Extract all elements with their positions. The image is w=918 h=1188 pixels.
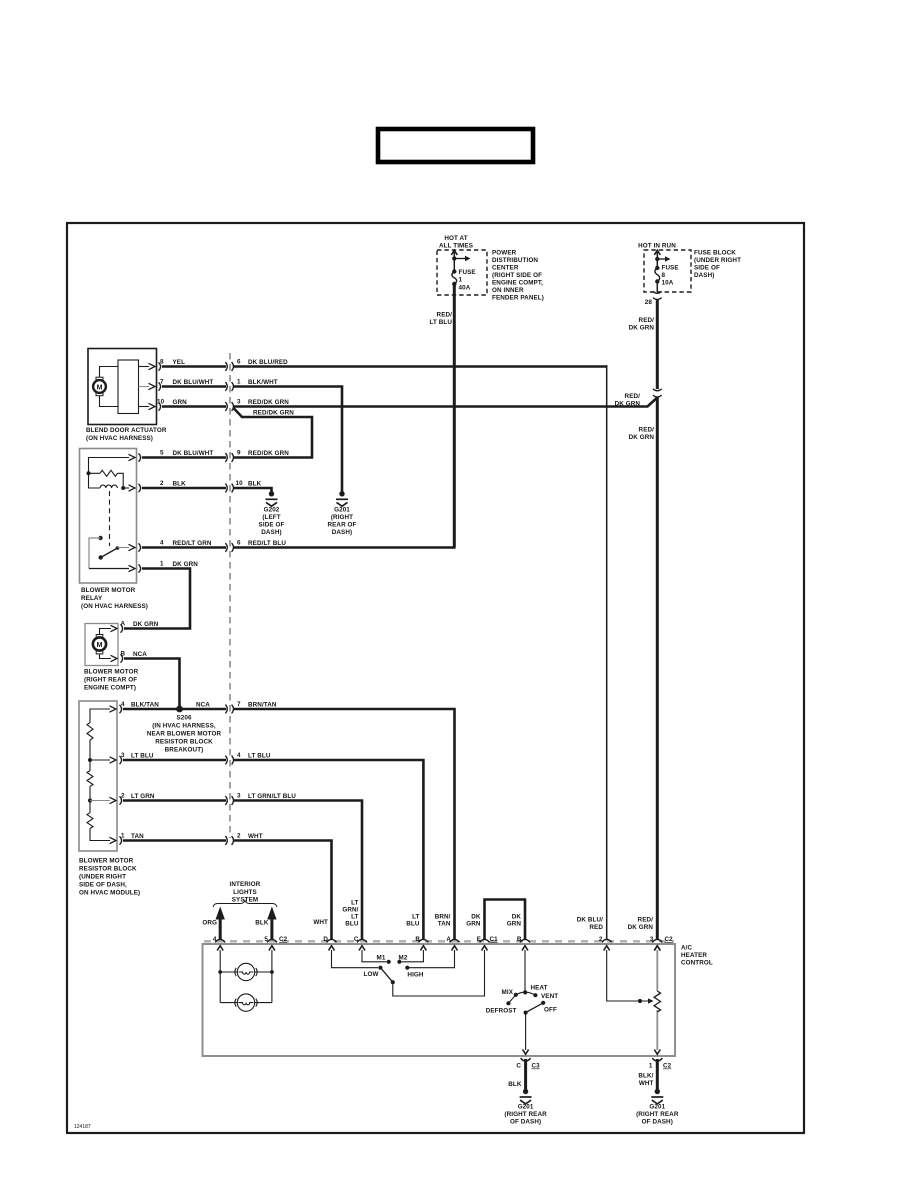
cap pin B: [418, 939, 428, 942]
svg-text:DASH): DASH): [332, 529, 352, 536]
wire RED/LT GRN pin4 to connector: [142, 546, 226, 549]
svg-text:HIGH: HIGH: [407, 972, 423, 979]
label RED/DK GRN stacked: [628, 917, 654, 932]
blend door actuator box: [88, 349, 157, 425]
label FUSE 8 10A: [662, 265, 679, 287]
node bulb1 right: [270, 970, 274, 974]
pin B: [111, 654, 123, 662]
svg-text:ENGINE COMPT): ENGINE COMPT): [84, 685, 136, 692]
arrow up at pot top: [654, 946, 660, 951]
label 7 DK BLU/WHT: [160, 379, 213, 387]
pin 4: [129, 543, 141, 551]
svg-text:M: M: [97, 642, 103, 649]
svg-text:FUSE: FUSE: [459, 269, 476, 276]
svg-text:YEL: YEL: [173, 359, 186, 366]
svg-text:HEATER: HEATER: [681, 952, 707, 959]
label BRN/TAN stacked: [435, 914, 451, 928]
label BLOWER MOTOR RELAY: [81, 587, 148, 610]
svg-text:3: 3: [650, 936, 654, 943]
svg-text:3: 3: [121, 752, 125, 759]
svg-text:LIGHTS: LIGHTS: [233, 889, 257, 896]
svg-text:FENDER PANEL): FENDER PANEL): [492, 295, 544, 302]
pin labels C C3: [516, 1063, 540, 1070]
wire BLK/WHT connector right then down to ground: [234, 387, 342, 493]
svg-text:RED/DK GRN: RED/DK GRN: [248, 399, 289, 406]
svg-text:C2: C2: [279, 936, 288, 943]
wire fan common to pin E: [393, 950, 485, 996]
svg-text:HOT AT: HOT AT: [444, 235, 467, 242]
label 8 YEL: [160, 359, 185, 367]
wire BLK arrow up: [270, 918, 273, 940]
svg-text:A: A: [446, 936, 451, 943]
pin 10: [149, 402, 161, 410]
svg-text:124187: 124187: [74, 1124, 91, 1130]
potentiometer body vertical: [656, 950, 658, 991]
connector dashed strip along top edge: [204, 940, 674, 943]
wire M2 to pin B: [402, 950, 424, 962]
pin 1: [110, 836, 122, 844]
svg-text:1: 1: [121, 833, 125, 840]
wire R2 to node pin2: [89, 786, 91, 812]
label A/C HEATER CONTROL: [681, 945, 713, 967]
svg-text:FUSE BLOCK: FUSE BLOCK: [694, 250, 736, 257]
svg-text:TAN: TAN: [438, 921, 451, 928]
svg-text:DK BLU/WHT: DK BLU/WHT: [173, 379, 214, 386]
svg-text:DASH): DASH): [261, 529, 281, 536]
potentiometer resistor zigzag: [654, 991, 660, 1012]
wire NCA pin B right then down to splice: [124, 659, 180, 710]
label INTERIOR LIGHTS SYSTEM: [230, 881, 261, 904]
connector C at fuse block output: [653, 291, 662, 299]
svg-text:2: 2: [237, 833, 241, 840]
pin 2: [110, 796, 122, 804]
svg-text:B: B: [121, 651, 126, 658]
svg-text:S206: S206: [176, 715, 192, 722]
svg-text:BLOWER MOTOR: BLOWER MOTOR: [81, 587, 136, 594]
arrow pin B C2: [522, 946, 528, 951]
branch arrow right inside fuse block: [657, 258, 666, 260]
arrow up to HOT AT ALL TIMES: [451, 250, 457, 255]
svg-text:BLU: BLU: [345, 921, 359, 928]
svg-text:M2: M2: [399, 955, 408, 962]
svg-text:ORG: ORG: [202, 920, 217, 927]
label 10 GRN: [157, 399, 187, 407]
svg-text:5: 5: [264, 936, 268, 943]
svg-text:GRN/: GRN/: [342, 907, 358, 914]
svg-text:BLOWER MOTOR: BLOWER MOTOR: [79, 858, 134, 865]
contact LOW: [378, 966, 382, 970]
svg-text:BLK: BLK: [508, 1081, 522, 1088]
svg-text:G201: G201: [518, 1104, 534, 1111]
svg-text:DK GRN: DK GRN: [629, 325, 655, 332]
fuse block dashed box: [644, 250, 691, 292]
wire block to pin 10: [139, 406, 150, 408]
svg-text:RED/LT GRN: RED/LT GRN: [173, 540, 212, 547]
svg-text:LT GRN/LT BLU: LT GRN/LT BLU: [248, 793, 296, 800]
svg-text:(RIGHT: (RIGHT: [331, 514, 353, 521]
label 1 DK GRN: [160, 561, 198, 569]
blower motor box: [85, 624, 118, 666]
contact M2: [397, 960, 401, 964]
svg-text:(RIGHT REAR OF: (RIGHT REAR OF: [84, 677, 137, 684]
svg-text:CONTROL: CONTROL: [681, 960, 713, 967]
connector row1: [225, 362, 233, 371]
motor M blower: [93, 635, 106, 654]
wire LT BLU pin3 to connector: [123, 759, 226, 762]
blend door actuator inner block: [118, 360, 139, 414]
svg-text:4: 4: [213, 936, 217, 943]
svg-text:(RIGHT REAR: (RIGHT REAR: [504, 1111, 547, 1118]
A/C heater control box: [203, 944, 676, 1056]
label RED/DK GRN below connector: [629, 427, 655, 442]
wire mode common down to pin C C3: [525, 1013, 527, 1050]
wire node to pin 3: [90, 759, 110, 761]
label 2 LT GRN: [121, 793, 155, 801]
svg-text:WHT: WHT: [248, 833, 263, 840]
svg-text:NCA: NCA: [133, 651, 147, 658]
svg-text:DK GRN: DK GRN: [629, 434, 655, 441]
connector row2: [225, 382, 233, 391]
label 7 BRN/TAN: [237, 701, 277, 709]
svg-text:VENT: VENT: [541, 993, 558, 1000]
empty title box at top: [378, 129, 533, 162]
svg-text:(IN HVAC HARNESS,: (IN HVAC HARNESS,: [152, 723, 216, 730]
svg-text:ENGINE COMPT,: ENGINE COMPT,: [492, 280, 543, 287]
wire motor top to block: [100, 367, 119, 378]
svg-text:REAR OF: REAR OF: [327, 522, 356, 529]
label LT BLU stacked: [406, 914, 420, 928]
svg-text:BLK: BLK: [255, 920, 269, 927]
node resistor pin2: [88, 799, 92, 803]
wire coil to pin 2: [123, 487, 129, 489]
label BLOWER MOTOR RESISTOR BLOCK: [79, 858, 140, 897]
svg-text:LT BLU: LT BLU: [429, 319, 452, 326]
splice S206: [176, 706, 183, 713]
svg-text:E: E: [477, 936, 481, 943]
svg-text:OF DASH): OF DASH): [642, 1119, 673, 1126]
label 3 LT GRN/LT BLU: [237, 793, 296, 801]
svg-text:HEAT: HEAT: [531, 985, 548, 992]
svg-text:DK GRN: DK GRN: [173, 561, 199, 568]
arrow pin A: [452, 946, 458, 951]
svg-text:6: 6: [237, 540, 241, 547]
label FUSE 1 40A: [459, 269, 476, 292]
wire GRN pin10 to connector: [162, 405, 226, 408]
label BLK/WHT: [638, 1073, 653, 1088]
bulb 2: [235, 994, 257, 1011]
arrow down at pin C: [523, 1050, 529, 1055]
wire BLK/TAN pin4 to connector: [123, 708, 226, 711]
label 1 TAN: [121, 833, 144, 841]
svg-text:NCA: NCA: [196, 702, 210, 709]
wire block to pin 8: [139, 366, 150, 368]
cap pin C bottom: [521, 1058, 531, 1061]
wire RED/DK GRN connector right, rises to inline connector: [234, 398, 657, 407]
bulb 1: [235, 963, 257, 980]
wire RED/DK GRN from fuse 8 down: [656, 299, 659, 389]
fan switch wiper arm: [381, 968, 393, 982]
label G201: [327, 507, 356, 537]
mode switch wiper arm: [526, 1004, 542, 1013]
svg-text:DK: DK: [512, 914, 522, 921]
wire pin B C2 down to HEAT: [524, 950, 526, 992]
node mode wiper pivot: [524, 1011, 528, 1015]
label LT GRN/LT BLU stacked: [342, 900, 359, 928]
svg-text:MIX: MIX: [502, 989, 514, 996]
svg-text:ON INNER: ON INNER: [492, 287, 524, 294]
label 4 RED/LT GRN: [160, 540, 212, 548]
svg-text:INTERIOR: INTERIOR: [230, 881, 261, 888]
svg-text:1: 1: [459, 277, 463, 284]
svg-text:BREAKOUT): BREAKOUT): [165, 747, 204, 754]
node fuse8 input junction: [655, 257, 659, 261]
label 6 RED/LT BLU: [237, 540, 286, 548]
wire BLK/WHT down to ground: [656, 1059, 659, 1089]
svg-text:C: C: [516, 1063, 521, 1070]
connector row3: [225, 402, 233, 411]
label G201: [636, 1104, 679, 1126]
svg-text:BLOWER MOTOR: BLOWER MOTOR: [84, 669, 139, 676]
svg-text:(UNDER RIGHT: (UNDER RIGHT: [694, 257, 741, 264]
svg-text:BLK: BLK: [173, 481, 187, 488]
relay coil: [100, 485, 117, 488]
wire fuse1 feed: [453, 252, 455, 272]
resistor relay (zigzag): [100, 470, 118, 476]
svg-text:6: 6: [237, 359, 241, 366]
svg-text:DK BLU/RED: DK BLU/RED: [248, 359, 288, 366]
connector row relay pin5: [225, 453, 233, 462]
cap pin 1 bottom: [652, 1058, 662, 1061]
svg-text:WHT: WHT: [313, 919, 328, 926]
svg-text:8: 8: [662, 272, 666, 279]
pin 1: [129, 564, 141, 572]
svg-text:G202: G202: [264, 507, 280, 514]
connector row relay pin4: [225, 543, 233, 552]
svg-text:RED/: RED/: [639, 427, 655, 434]
ground G201 right: [651, 1089, 663, 1104]
ground G201 left: [520, 1089, 532, 1104]
svg-text:7: 7: [160, 379, 164, 386]
svg-text:D: D: [323, 936, 328, 943]
connector row resistor pin4: [225, 705, 233, 714]
svg-text:RED/: RED/: [639, 317, 655, 324]
svg-text:LT: LT: [351, 900, 358, 907]
svg-text:2: 2: [599, 936, 603, 943]
svg-text:(UNDER RIGHT: (UNDER RIGHT: [79, 874, 126, 881]
resistor R3 (blower): [87, 813, 93, 829]
svg-text:BLK/WHT: BLK/WHT: [248, 379, 278, 386]
arrow pin 2: [604, 946, 610, 951]
cap pin 4: [215, 939, 225, 942]
svg-text:TAN: TAN: [131, 833, 144, 840]
wire DK GRN pin1 right then down: [124, 569, 190, 629]
cap pin 5: [267, 939, 277, 942]
svg-text:C: C: [354, 936, 359, 943]
pin A: [111, 624, 123, 632]
svg-text:10: 10: [157, 399, 165, 406]
cap pin 3: [652, 939, 662, 942]
label FUSE BLOCK: [694, 250, 741, 280]
label 10 BLK: [236, 480, 262, 488]
wire pin4 down: [219, 950, 221, 1003]
svg-text:RED/: RED/: [638, 917, 654, 924]
label 2 WHT: [237, 833, 263, 841]
node resistor pin3: [88, 758, 92, 762]
cap pin 2: [602, 939, 612, 942]
label 2 BLK: [160, 480, 186, 488]
svg-text:10A: 10A: [662, 280, 674, 287]
contact MIX: [514, 993, 518, 997]
wire BLK down to ground: [524, 1059, 527, 1089]
wire LT BLU connector right then down to control pin B: [234, 760, 423, 940]
svg-text:(RIGHT REAR: (RIGHT REAR: [636, 1111, 679, 1118]
node coil to pin2: [121, 486, 125, 490]
svg-text:LT GRN: LT GRN: [131, 793, 155, 800]
label BLEND DOOR ACTUATOR: [86, 427, 167, 442]
svg-text:GRN: GRN: [507, 921, 522, 928]
wire relay pin5 internal: [89, 458, 130, 474]
label POWER DISTRIBUTION CENTER: [492, 250, 544, 302]
pin 3: [110, 756, 122, 764]
wire TAN pin1 to connector: [123, 839, 226, 842]
svg-text:BLU: BLU: [406, 921, 420, 928]
svg-text:4: 4: [121, 701, 125, 708]
label DK GRN right: [507, 914, 522, 928]
svg-text:(ON HVAC HARNESS): (ON HVAC HARNESS): [81, 603, 148, 610]
node bulb1 left: [218, 970, 222, 974]
wire pin D to LOW contact: [332, 950, 379, 968]
contact M1: [387, 960, 391, 964]
svg-text:2: 2: [160, 480, 164, 487]
svg-text:RED/LT BLU: RED/LT BLU: [248, 540, 286, 547]
contact VENT: [533, 993, 537, 997]
svg-text:1: 1: [160, 561, 164, 568]
relay wiper arm: [101, 548, 118, 558]
pin labels top row: [213, 936, 673, 943]
label 6 DK BLU/RED: [237, 359, 288, 367]
label G201: [504, 1104, 547, 1126]
node pot wiper: [638, 999, 642, 1003]
svg-text:ALL TIMES: ALL TIMES: [439, 243, 473, 250]
svg-text:GRN: GRN: [466, 921, 481, 928]
svg-text:M: M: [97, 384, 103, 391]
wire wiper to pin 4: [118, 547, 130, 549]
fuse F1 element: [452, 269, 456, 273]
svg-text:HOT IN RUN: HOT IN RUN: [638, 243, 676, 250]
svg-text:B: B: [517, 936, 522, 943]
svg-text:4: 4: [160, 540, 164, 547]
arrow pin E: [482, 946, 488, 951]
wire DK BLU/RED vertical down to control: [606, 365, 608, 940]
wire bulb1 row: [220, 971, 272, 973]
branch arrow right inside PDC: [454, 258, 466, 260]
pot wiper arrowhead: [648, 998, 654, 1003]
wire HIGH to pin A: [407, 950, 454, 968]
cap pin C: [357, 939, 367, 942]
svg-text:NEAR BLOWER MOTOR: NEAR BLOWER MOTOR: [147, 731, 222, 738]
wire bulb2 row: [220, 1002, 272, 1004]
svg-text:OF DASH): OF DASH): [510, 1119, 541, 1126]
label 1 BLK/WHT: [237, 379, 278, 387]
svg-text:SIDE OF DASH,: SIDE OF DASH,: [79, 882, 127, 889]
label RED/DK GRN at inline connector: [615, 393, 641, 408]
wire R3 to pin 1: [90, 829, 110, 841]
wire block to pin 7 (gray): [139, 386, 150, 388]
svg-text:BLEND DOOR ACTUATOR: BLEND DOOR ACTUATOR: [86, 427, 167, 434]
svg-text:RESISTOR BLOCK: RESISTOR BLOCK: [79, 866, 137, 873]
svg-text:C1: C1: [490, 936, 499, 943]
svg-text:OFF: OFF: [544, 1007, 557, 1014]
svg-text:POWER: POWER: [492, 250, 517, 257]
wire to resistor: [89, 473, 124, 488]
svg-text:BRN/: BRN/: [435, 914, 451, 921]
wire motor bottom to block: [100, 396, 119, 407]
svg-text:7: 7: [237, 701, 241, 708]
svg-text:C2: C2: [663, 1063, 672, 1070]
cap pin E: [480, 939, 490, 942]
svg-text:C3: C3: [532, 1063, 541, 1070]
arrow pin 5: [269, 946, 275, 951]
arrow pin 3: [654, 946, 660, 951]
svg-text:A/C: A/C: [681, 945, 692, 952]
outer diagram border frame: [67, 223, 804, 1133]
svg-text:M1: M1: [377, 955, 386, 962]
svg-text:DK BLU/WHT: DK BLU/WHT: [173, 450, 214, 457]
svg-text:C2: C2: [665, 936, 674, 943]
label G202: [259, 507, 285, 537]
wire fuse8 feed: [656, 252, 658, 292]
label HOT AT ALL TIMES: [439, 235, 473, 250]
wire RED/LT BLU from fuse 1 down: [453, 284, 456, 548]
resistor R1 (blower): [87, 723, 93, 741]
wire DEFROST to MIX: [508, 995, 515, 1004]
svg-text:(ON HVAC HARNESS): (ON HVAC HARNESS): [86, 435, 153, 442]
wire left branch down to coil: [89, 473, 101, 488]
label RED/LT BLU: [429, 312, 452, 327]
connector C100 dashed line: [229, 353, 231, 838]
wire RED/DK GRN branch U to relay pin 9 row: [234, 408, 313, 458]
arrow pin C: [359, 946, 365, 951]
svg-text:SIDE OF: SIDE OF: [259, 522, 285, 529]
wire R1 to node pin3: [89, 740, 91, 771]
connector row resistor pin2: [225, 796, 233, 805]
wire LT GRN/LT BLU connector right then down to control pin C: [234, 801, 362, 941]
svg-text:RED: RED: [589, 924, 603, 931]
svg-text:10: 10: [236, 480, 244, 487]
svg-text:RED/: RED/: [625, 393, 641, 400]
wire motor to pin A: [100, 629, 112, 635]
label A DK GRN: [121, 621, 159, 629]
pin 2: [129, 484, 141, 492]
wire DK BLU/WHT pin7 to connector: [162, 385, 226, 388]
pin 5: [129, 453, 141, 461]
ground G201 upper: [336, 491, 348, 506]
label S206 block: [147, 715, 222, 754]
label 4 BLK/TAN: [121, 701, 159, 709]
connector row relay pin2: [225, 484, 233, 493]
inline connector on RED/DK GRN: [653, 389, 662, 397]
wire LT GRN pin2 to connector: [123, 799, 226, 802]
wire pin5 down: [271, 950, 273, 1003]
svg-text:DK: DK: [471, 914, 481, 921]
svg-text:5: 5: [160, 450, 164, 457]
wire DK GRN bridge (pi shape): [485, 900, 526, 941]
svg-text:BRN/TAN: BRN/TAN: [248, 702, 277, 709]
label B NCA: [121, 651, 148, 659]
svg-text:DK GRN: DK GRN: [133, 621, 159, 628]
svg-text:A: A: [121, 621, 126, 628]
cap pin A: [450, 939, 460, 942]
